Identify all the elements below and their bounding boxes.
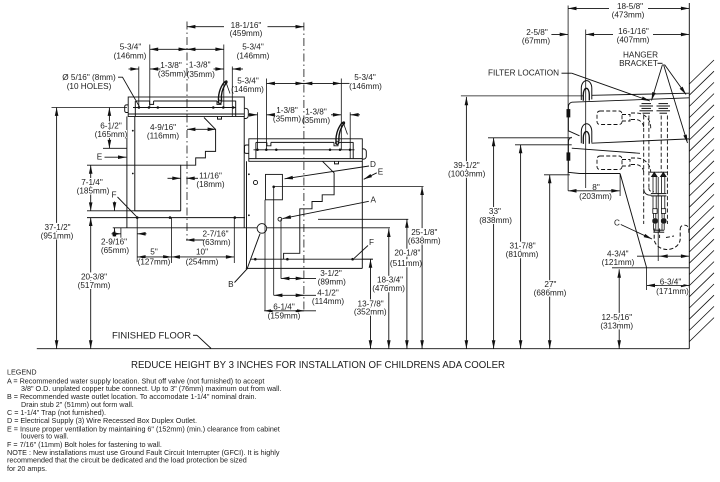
filter dashed box upper (597, 111, 622, 125)
dim 5-3/4 lower line (267, 82, 342, 84)
lower basin hole 3 (275, 149, 278, 152)
side drain stub vertical (646, 268, 648, 290)
svg-text:(10 HOLES): (10 HOLES) (67, 82, 112, 91)
dim 2-7/16 line (186, 239, 204, 241)
dim 11/16 arrows (168, 177, 181, 179)
dim 5-3/4 lower mid arrows (295, 82, 304, 84)
lower basin hole 2 (265, 149, 268, 152)
pipe pair 2 (660, 116, 662, 172)
dim 33 text (487, 207, 502, 215)
ext hole1 upper (138, 67, 140, 108)
upper basin right ear (244, 108, 248, 118)
upper bolt hole 3 (234, 216, 237, 219)
svg-text:(65mm): (65mm) (101, 246, 129, 255)
svg-text:(159mm): (159mm) (268, 312, 301, 321)
upper bubbler (218, 82, 224, 103)
aux arrow down (114, 202, 116, 211)
dim 8in text (591, 184, 601, 190)
lower basin hole 5 (339, 149, 342, 152)
dim 2-9/16 text (100, 238, 128, 246)
dim 6-1/2 line (108, 108, 110, 149)
ext D level / 25-1/8 ref (274, 186, 424, 188)
lower basin inner right wall (352, 142, 354, 158)
ext 7-1/4 top (87, 164, 181, 166)
dim 6-3/4 line (647, 284, 690, 286)
lower basin left ear (244, 145, 248, 153)
dim 13-7/8 line (370, 259, 372, 348)
dim 20-3/8 text (80, 272, 109, 280)
dim 27 text (543, 280, 558, 288)
union nut left (652, 218, 658, 223)
drain block left (653, 209, 657, 214)
lower bolt hole 1 (254, 258, 257, 261)
ext front face side view (567, 6, 569, 191)
drain flange B (653, 229, 664, 231)
svg-text:(185mm): (185mm) (77, 187, 110, 196)
leader A (283, 201, 369, 218)
svg-text:(951mm): (951mm) (41, 231, 74, 240)
ext 6-1/2 bottom (103, 147, 127, 149)
lower cabinet right edge (361, 161, 363, 268)
svg-text:(476mm): (476mm) (372, 284, 405, 293)
svg-text:(116mm): (116mm) (147, 132, 179, 141)
svg-text:(313mm): (313mm) (600, 321, 633, 330)
dim 10in line (172, 256, 235, 258)
leader hanger 1 (652, 65, 663, 101)
dim 6-1/2 text (99, 121, 124, 129)
ext 13-7/8 ref (362, 258, 373, 260)
lower basin outline (249, 139, 362, 162)
dim 6-1/4 arrows (264, 310, 316, 312)
svg-text:33": 33" (489, 207, 501, 216)
lower basin holes line (254, 149, 355, 151)
side upper top rear line (592, 93, 690, 95)
svg-text:6-3/4": 6-3/4" (660, 278, 682, 287)
dim 20-1/8 text (393, 249, 422, 257)
waste outlet B circle (257, 224, 267, 234)
lower basin bottom inner line (249, 158, 362, 160)
dim 3-1/2 arrows (281, 277, 316, 279)
leader F left (118, 197, 137, 217)
ext bolt3 down (233, 218, 235, 263)
leader E left (105, 156, 127, 158)
dim 33 line (493, 138, 495, 349)
upper basin hole 2 (148, 106, 151, 109)
side bottom diagonal (620, 174, 647, 268)
dim 12-5/16 text (600, 313, 633, 321)
upper basin deck line (136, 100, 150, 102)
svg-text:(127mm): (127mm) (138, 257, 171, 266)
upper cabinet steps (181, 118, 216, 211)
ext bubbler lower (349, 112, 351, 158)
svg-text:(254mm): (254mm) (186, 257, 219, 266)
upper basin left ear (125, 105, 129, 113)
upper unit centerline (186, 22, 188, 241)
dim 8in line (568, 190, 620, 192)
ext 27 ref (544, 174, 570, 176)
svg-text:(146mm): (146mm) (237, 51, 270, 60)
ext 20-1/8 ref (318, 218, 408, 220)
svg-text:FINISHED FLOOR: FINISHED FLOOR (112, 330, 191, 341)
trap inner dash (666, 236, 674, 238)
lower unit centerline (303, 23, 305, 311)
svg-text:(165mm): (165mm) (95, 130, 128, 139)
dim 5-3/4 upper mid arrows (178, 48, 187, 50)
svg-text:REDUCE HEIGHT BY 3 INCHES FOR: REDUCE HEIGHT BY 3 INCHES FOR INSTALLATI… (131, 360, 505, 371)
electrical box dot (272, 186, 275, 189)
leader D (285, 166, 370, 179)
dim 4-9/16 line (187, 128, 216, 130)
upper cabinet inner panel (135, 117, 181, 211)
svg-text:(121mm): (121mm) (602, 258, 635, 267)
lower basin bottom notch (335, 161, 339, 164)
side lower bubbler inner (583, 132, 589, 144)
ext inlet down (280, 219, 282, 278)
dim 2-5/8 arrow (551, 33, 568, 35)
dim 6-1/4 text (271, 303, 297, 310)
dim 20-3/8 line (90, 218, 92, 349)
drain pipes low (653, 213, 655, 218)
upper basin bottom inner line (128, 113, 244, 115)
ext hole1 lower (257, 112, 259, 149)
dim 18-3/4 line (388, 229, 390, 349)
lower bubbler (336, 123, 342, 144)
svg-text:E: E (97, 153, 103, 162)
upper cabinet right edge (243, 117, 245, 228)
supply elbow solid (644, 189, 652, 196)
dim 20-1/8 line (406, 219, 408, 348)
side upper bubbler inner (583, 88, 589, 100)
ext 5-3/4 upper left (149, 45, 151, 108)
filter tab lower (622, 160, 630, 167)
wall line (688, 3, 690, 349)
ext 39-1/2 ref (461, 95, 583, 97)
svg-text:(89mm): (89mm) (318, 278, 346, 287)
leader hanger 2 (665, 65, 687, 95)
upper basin inner left wall (134, 101, 136, 116)
svg-text:(35mm): (35mm) (273, 114, 301, 123)
svg-text:D: D (370, 160, 376, 169)
svg-text:(171mm): (171mm) (656, 287, 689, 296)
side lower top rear line (592, 139, 690, 143)
svg-text:1-3/8": 1-3/8" (189, 61, 211, 70)
dim 16-1/16 line (586, 33, 613, 35)
ext box center down (273, 187, 275, 296)
pipe pair 1 (643, 116, 645, 225)
filter tab upper (622, 115, 630, 122)
drain stub center line (657, 177, 659, 261)
svg-text:(638mm): (638mm) (408, 237, 441, 246)
valve wedge right (661, 172, 666, 176)
dim 10in text (195, 248, 209, 255)
trap dashed U (654, 229, 680, 250)
trap outlet curl (680, 225, 689, 234)
svg-text:E: E (378, 167, 384, 176)
ext bubbler side view (585, 30, 587, 189)
dim 27 line (549, 175, 551, 349)
upper bolt hole line (87, 217, 245, 219)
dim 4-1/2 arrows (274, 294, 316, 296)
svg-text:BRACKET: BRACKET (619, 59, 658, 68)
cabinet bottom line (113, 227, 390, 229)
upper cabinet rivet dots (132, 130, 134, 132)
dim 37-1/2 text (44, 223, 72, 231)
leader F right (354, 246, 368, 259)
drain pipes upper (652, 177, 654, 193)
filter dashed box lower (597, 156, 622, 170)
lower cabinet rivet dots (248, 173, 250, 175)
svg-text:(35mm): (35mm) (187, 70, 215, 79)
svg-text:(838mm): (838mm) (479, 216, 512, 225)
finished floor line (37, 348, 690, 350)
dim 13-7/8 text (356, 299, 385, 307)
dim 31-7/8 line (520, 145, 522, 349)
dim 18-3/4 text (376, 276, 405, 284)
svg-text:FILTER LOCATION: FILTER LOCATION (488, 69, 559, 78)
svg-text:C: C (614, 219, 620, 228)
svg-text:(146mm): (146mm) (349, 82, 382, 91)
svg-text:(459mm): (459mm) (230, 29, 263, 38)
dim 25-1/8 text (410, 228, 439, 236)
pipe pair 1 elbows (649, 188, 654, 191)
dim 2-9/16 arrows (112, 233, 121, 235)
upper basin inner right wall (235, 101, 237, 117)
lower cabinet steps (284, 161, 335, 259)
lower bolt hole 3 (351, 258, 354, 261)
dim 5in line (137, 256, 171, 258)
upper basin hole 3 (157, 106, 160, 109)
svg-text:(114mm): (114mm) (312, 297, 344, 306)
side upper top front line (572, 98, 690, 102)
dim 31-7/8 text (508, 242, 537, 250)
lower basin notch left (267, 142, 271, 145)
drain flange A (651, 193, 667, 195)
ext upper bubbler center (231, 67, 233, 117)
ext 12-5/16 ref / side bottom (612, 267, 689, 269)
drain pipes below nuts (653, 224, 655, 230)
leader B (235, 234, 261, 283)
svg-text:8": 8" (592, 183, 600, 192)
dim 6-3/4 text (658, 279, 684, 286)
side upper bubbler (581, 81, 592, 100)
svg-text:(517mm): (517mm) (78, 281, 111, 290)
valve wedge left (652, 172, 657, 176)
lower basin hole 1 (256, 149, 259, 152)
ext bolt2 down (171, 218, 173, 263)
svg-text:for 20 amps.: for 20 amps. (7, 464, 47, 473)
leader dia 5/16 (118, 77, 140, 107)
ext 5-3/4 lower right (340, 79, 342, 150)
wall hatching (689, 60, 714, 342)
svg-text:(810mm): (810mm) (506, 250, 539, 259)
ext 31-7/8 ref (515, 144, 572, 146)
side lower louver (567, 153, 570, 161)
electrical box D (266, 174, 283, 199)
dim 4-3/4 line (659, 255, 689, 257)
dim 1-3/8 lower arrows (249, 114, 258, 116)
dim 39-1/2 line (465, 97, 467, 349)
leader hanger 3 (664, 65, 688, 144)
side upper front face (568, 102, 579, 136)
upper bolt hole 1 (136, 216, 139, 219)
dim 39-1/2 text (452, 161, 481, 169)
ext 33 ref (488, 137, 572, 139)
dim 5-3/4 upper line (150, 48, 224, 50)
upper basin hole 1 (138, 106, 141, 109)
svg-text:(686mm): (686mm) (534, 289, 567, 298)
ext 2-9/16 left (120, 228, 122, 239)
lower cabinet left edge (246, 161, 248, 268)
svg-text:(67mm): (67mm) (522, 36, 550, 45)
svg-text:Ø 5/16" (8mm): Ø 5/16" (8mm) (62, 73, 116, 82)
dim 18-1/16 line b (268, 26, 304, 28)
union ticks top a (642, 103, 652, 105)
drain pipes mid (652, 196, 654, 209)
upper bolt hole 2 (169, 216, 172, 219)
leader E right (364, 173, 377, 180)
svg-text:(18mm): (18mm) (196, 180, 224, 189)
filter dashes upper (631, 113, 651, 129)
dim 1-3/8 upper bubbler arrows (214, 68, 224, 70)
lower basin notch right (334, 142, 338, 145)
upper basin holes line (133, 107, 236, 109)
svg-text:F: F (369, 238, 374, 247)
svg-text:20-1/8": 20-1/8" (394, 249, 420, 258)
dim 18-1/16 line a (187, 26, 224, 28)
lower basin deck line (256, 141, 267, 143)
svg-text:B: B (228, 280, 234, 289)
svg-text:10": 10" (196, 248, 208, 257)
dim 1-3/8 upper arrows (129, 68, 139, 70)
svg-text:(511mm): (511mm) (390, 259, 422, 268)
svg-text:5": 5" (150, 248, 158, 257)
upper basin hole 4 (212, 106, 215, 109)
svg-text:(35mm): (35mm) (302, 116, 330, 125)
side upper louver (567, 110, 570, 118)
leader filter (572, 73, 650, 101)
ext bolt1 down (136, 218, 138, 262)
svg-text:(203mm): (203mm) (579, 192, 612, 201)
ext box left down (264, 200, 266, 311)
dim 37-1/2 line (56, 108, 58, 349)
svg-text:F: F (111, 190, 116, 199)
side lower top front line (572, 148, 640, 153)
side lower front face (568, 137, 620, 173)
lower bolt hole line (251, 258, 373, 260)
ext top of unit / 37-1/2 ref (52, 107, 128, 109)
dim 11/16 text (198, 172, 223, 180)
dim 25-1/8 line (421, 187, 423, 349)
lower basin hole 4 (329, 149, 332, 152)
dim 12-5/16 line (618, 269, 620, 348)
trap dashed inner (659, 229, 661, 239)
union nut right (661, 218, 667, 223)
lower cabinet bottom (246, 267, 362, 269)
lower basin right ear (362, 149, 366, 159)
dim 7-1/4 text (79, 178, 105, 186)
upper basin hole 5 (222, 106, 225, 109)
upper basin outline (128, 97, 244, 117)
svg-text:A: A (370, 195, 376, 204)
svg-text:(473mm): (473mm) (612, 10, 645, 19)
svg-text:(146mm): (146mm) (114, 51, 147, 60)
dim 1-3/8 lower bubbler arrows (331, 114, 341, 116)
dim 5in text (149, 248, 159, 255)
svg-text:(1003mm): (1003mm) (448, 170, 486, 179)
union ticks top b (659, 103, 669, 105)
svg-text:(146mm): (146mm) (231, 85, 264, 94)
upper basin notch left (150, 101, 154, 104)
filter dashes lower (631, 158, 651, 172)
side 8in ref vertical (619, 174, 621, 197)
upper basin notch right (217, 101, 221, 104)
svg-text:6-1/4": 6-1/4" (273, 303, 295, 312)
svg-text:(63mm): (63mm) (202, 238, 230, 247)
dim 7-1/4 line (90, 165, 92, 211)
svg-text:(407mm): (407mm) (617, 36, 650, 45)
lower bolt hole 2 (286, 258, 289, 261)
svg-text:(35mm): (35mm) (158, 70, 186, 79)
upper unit inlet circle (253, 180, 257, 184)
water inlet A circle (278, 217, 282, 221)
svg-text:5-3/4": 5-3/4" (354, 73, 376, 82)
leader C (621, 225, 652, 240)
ext 7-1/4 bottom (87, 210, 181, 212)
upper cabinet left edge (126, 117, 128, 228)
ext 5-3/4 lower left (266, 79, 268, 150)
dim 18-5/8 line (568, 7, 609, 9)
side lower bubbler (581, 124, 592, 143)
upper basin hole 6 (232, 106, 235, 109)
lower basin hole 6 (349, 149, 352, 152)
ext 5-3/4 upper right (223, 45, 225, 108)
svg-text:(352mm): (352mm) (354, 308, 387, 317)
aux arrow up (114, 228, 116, 237)
lower basin inner left wall (255, 142, 257, 158)
drain block right (661, 209, 665, 214)
upper basin bottom notch (218, 117, 222, 120)
